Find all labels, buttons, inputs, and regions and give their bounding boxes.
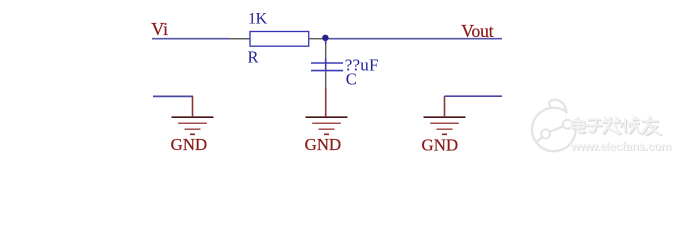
- resistor R1: [250, 32, 309, 47]
- net label GND (left): [171, 135, 208, 154]
- svg-text:C: C: [346, 70, 357, 89]
- capacitor C1 pin 1: [325, 41, 327, 72]
- resistor R1 pin 2: [309, 38, 323, 40]
- junction node A: [322, 35, 328, 41]
- wire left ground stub: [153, 95, 193, 97]
- wire node to Vout: [322, 38, 502, 40]
- svg-text:GND: GND: [422, 136, 459, 155]
- resistor R1 pin 1: [229, 38, 250, 40]
- svg-text:Vi: Vi: [151, 19, 168, 39]
- svg-text:GND: GND: [171, 135, 208, 154]
- svg-text:Vout: Vout: [461, 21, 493, 41]
- net label Vi: [151, 19, 168, 39]
- wire Vi to R1: [152, 38, 230, 40]
- capacitor C1: [311, 63, 343, 71]
- ground (right): [424, 117, 466, 134]
- net label GND (right): [422, 136, 459, 155]
- svg-text:GND: GND: [305, 135, 342, 154]
- svg-text:www.elecfans.com: www.elecfans.com: [570, 139, 671, 153]
- svg-text:R: R: [248, 48, 259, 67]
- watermark logo elecfans icon: [532, 100, 576, 152]
- net label Vout: [461, 21, 493, 41]
- wire left ground lead: [192, 96, 194, 116]
- ground (middle): [306, 117, 348, 134]
- value label 1K: [248, 10, 268, 27]
- wire C1 to middle ground lead: [325, 88, 327, 116]
- net label GND (middle): [305, 135, 342, 154]
- designator label R: [248, 48, 259, 67]
- designator label C: [346, 70, 357, 89]
- value label ??uF: [345, 55, 379, 74]
- ground (left): [172, 117, 214, 134]
- svg-text:1K: 1K: [248, 10, 268, 27]
- wire right ground lead: [444, 96, 446, 116]
- capacitor C1 pin 2: [325, 71, 327, 88]
- wire right ground stub: [445, 95, 503, 97]
